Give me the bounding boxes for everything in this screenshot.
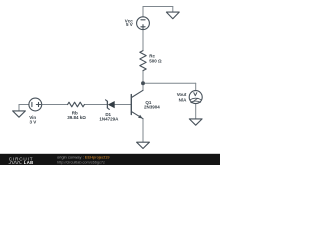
wire: [195, 104, 197, 119]
wire: [142, 30, 144, 51]
wire: [195, 83, 197, 90]
transistor Q1 (NPN 2N3904): [131, 90, 143, 118]
wire: [84, 104, 107, 106]
wire: [142, 83, 144, 90]
voltmeter VM1: [189, 91, 202, 104]
svg-text:http://circuitlab.com/c66gc7z: http://circuitlab.com/c66gc7z: [57, 160, 105, 164]
ground: [137, 142, 150, 148]
wire: [143, 6, 173, 8]
wire: [172, 7, 174, 12]
svg-text:2N3904: 2N3904: [144, 105, 160, 110]
svg-text:5 V: 5 V: [126, 22, 133, 27]
voltage source V2 (Vcc): [137, 17, 150, 30]
svg-text:500 Ω: 500 Ω: [149, 58, 162, 63]
voltage source V1 (Vin): [29, 98, 42, 111]
svg-text:N/A: N/A: [179, 97, 188, 102]
footer watermark bar: [0, 154, 220, 165]
svg-text:origin conway : EEHproject19: origin conway : EEHproject19: [57, 155, 110, 160]
wire: [114, 104, 131, 106]
diode D1 (zener 1N4729A): [106, 100, 115, 110]
ground: [13, 111, 26, 117]
wire: [142, 119, 144, 142]
wire: [142, 7, 144, 17]
ground: [189, 119, 202, 125]
resistor Rc: [140, 51, 146, 71]
resistor Rb: [68, 102, 85, 107]
ground: [166, 12, 179, 19]
svg-text:3 V: 3 V: [30, 119, 37, 124]
node collector junction: [142, 82, 145, 85]
CircuitLab logo: [9, 156, 34, 165]
wire: [142, 71, 144, 84]
svg-text:39.84 kΩ: 39.84 kΩ: [67, 115, 86, 120]
svg-text:1N4729A: 1N4729A: [99, 117, 119, 122]
svg-text:Vout: Vout: [177, 92, 187, 97]
wire: [18, 105, 20, 111]
wire: [42, 104, 68, 106]
wire: [143, 82, 196, 84]
svg-text:LAB: LAB: [24, 160, 34, 165]
wire: [19, 104, 29, 106]
